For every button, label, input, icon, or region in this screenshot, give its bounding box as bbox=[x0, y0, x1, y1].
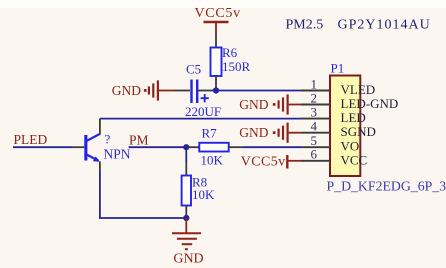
svg-text:1: 1 bbox=[311, 76, 318, 91]
resistor R8 bbox=[182, 147, 215, 214]
wire R7 to pin 5 (net VO) bbox=[244, 146, 302, 148]
svg-text:VCC5v: VCC5v bbox=[241, 154, 286, 169]
svg-text:C5: C5 bbox=[186, 61, 201, 76]
power VCC5v (top) bbox=[195, 6, 241, 32]
wire GND to C5 bbox=[159, 90, 174, 92]
power GND (left of C5) bbox=[112, 80, 158, 100]
wire C5 to junction and pin 1 (net VLED) bbox=[198, 90, 211, 92]
svg-text:PM2.5: PM2.5 bbox=[286, 17, 324, 32]
emitter pin bbox=[99, 162, 101, 173]
svg-text:GND: GND bbox=[112, 83, 141, 98]
transistor Q1 NPN bbox=[72, 131, 131, 162]
junction node emitter/R8/GND bbox=[183, 215, 189, 221]
ground GND (bottom) bbox=[172, 218, 204, 266]
pin 6 bbox=[301, 160, 330, 162]
svg-text:10K: 10K bbox=[192, 187, 215, 202]
svg-text:P1: P1 bbox=[331, 61, 345, 76]
svg-text:R6: R6 bbox=[222, 45, 238, 60]
svg-text:10K: 10K bbox=[201, 153, 224, 168]
resistor R6 bbox=[211, 45, 251, 76]
resistor R7 bbox=[186, 126, 243, 168]
svg-text:4: 4 bbox=[311, 119, 318, 134]
svg-text:3: 3 bbox=[311, 104, 318, 119]
svg-text:6: 6 bbox=[311, 147, 318, 162]
svg-text:P_D_KF2EDG_6P_3: P_D_KF2EDG_6P_3 bbox=[327, 179, 446, 194]
svg-text:LED-GND: LED-GND bbox=[341, 96, 399, 111]
power VCC5v (pin 6) bbox=[241, 154, 302, 169]
pin 5 bbox=[301, 146, 330, 148]
power GND (pin 2) bbox=[239, 94, 301, 114]
svg-text:GND: GND bbox=[239, 97, 268, 112]
svg-text:PM: PM bbox=[129, 133, 149, 148]
svg-text:150R: 150R bbox=[222, 59, 251, 74]
collector pin bbox=[99, 119, 101, 135]
pin 2 bbox=[301, 104, 330, 106]
pin 1 bbox=[301, 90, 330, 92]
junction node PM/R7/R8 bbox=[183, 144, 189, 150]
wire emitter down and right to R8 bottom bbox=[100, 172, 186, 218]
svg-text:GND: GND bbox=[239, 125, 268, 140]
wire VCC5v to R6 bbox=[215, 32, 217, 48]
wire PLED to base bbox=[13, 146, 72, 148]
svg-text:VLED: VLED bbox=[341, 82, 376, 97]
pin 3 bbox=[301, 118, 330, 120]
svg-text:LED: LED bbox=[341, 110, 366, 125]
svg-text:2: 2 bbox=[311, 90, 318, 105]
svg-text:?: ? bbox=[105, 131, 111, 146]
wire collector to pin 3 (net LED) bbox=[100, 118, 301, 120]
capacitor C5 bbox=[185, 61, 221, 118]
connector P1 body bbox=[330, 76, 360, 177]
svg-text:GND: GND bbox=[173, 251, 203, 266]
svg-text:R7: R7 bbox=[202, 126, 218, 141]
svg-text:NPN: NPN bbox=[104, 147, 131, 162]
wire R8 to bottom node bbox=[185, 214, 187, 218]
svg-text:220UF: 220UF bbox=[185, 104, 221, 119]
power GND (pin 4) bbox=[239, 123, 301, 143]
svg-text:VCC5v: VCC5v bbox=[195, 6, 241, 21]
svg-text:GP2Y1014AU: GP2Y1014AU bbox=[338, 17, 431, 32]
pin 4 bbox=[301, 132, 330, 134]
svg-text:VCC: VCC bbox=[341, 152, 368, 167]
wire PM to R7 and pin 5 bbox=[129, 146, 187, 148]
junction node R6/C5/VLED bbox=[213, 87, 219, 93]
svg-text:PLED: PLED bbox=[14, 132, 48, 147]
wire R6 to junction bbox=[215, 76, 217, 91]
svg-text:SGND: SGND bbox=[341, 124, 376, 139]
